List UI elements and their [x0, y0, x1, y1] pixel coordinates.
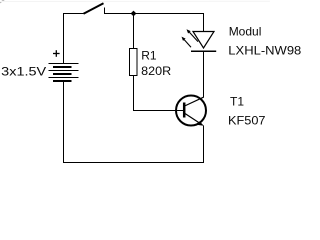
- transistor T1 base bar: [183, 103, 186, 118]
- svg-text:Modul: Modul: [229, 25, 262, 39]
- resistor R1 body: [130, 49, 138, 76]
- junction node (diamond) at resistor tap: [131, 11, 137, 17]
- wire top horizontal (switch to LED corner): [105, 13, 205, 15]
- transistor T1 emitter lead: [185, 114, 201, 125]
- battery cell plate short thick 3: [53, 80, 72, 82]
- battery cell plate long 3: [49, 77, 79, 79]
- transistor T1 circle: [176, 96, 206, 126]
- wire bottom horizontal: [63, 162, 204, 164]
- battery cell plate short thick 2: [53, 73, 72, 75]
- LED D1 triangle (anode): [193, 32, 214, 49]
- wire resistor bottom down to base corner: [133, 76, 135, 112]
- wire LED cathode down to transistor collector: [203, 52, 205, 98]
- battery polarity + label: [53, 50, 60, 57]
- battery cell plate short thick 1: [53, 66, 72, 68]
- transistor T1 collector lead: [185, 97, 204, 106]
- LED D1 cathode bar: [191, 50, 216, 52]
- wire base horizontal (corner to transistor base): [133, 110, 184, 112]
- svg-text:3x1.5V: 3x1.5V: [1, 65, 46, 79]
- wire left vertical (battery - down to bottom corner): [63, 82, 65, 163]
- switch right contact: [104, 8, 106, 15]
- svg-text:820R: 820R: [141, 64, 171, 78]
- svg-text:R1: R1: [141, 49, 157, 63]
- switch S (lever): [84, 3, 104, 14]
- wire right vertical (top corner down to LED anode): [203, 13, 205, 32]
- transistor T1 emitter arrowhead: [197, 121, 204, 126]
- wire top-left horizontal (battery to switch): [63, 13, 84, 15]
- LED emission arrow 2: [182, 37, 192, 48]
- wire emitter down to bottom corner: [203, 126, 205, 164]
- scan artifact mark top-left corner: [0, 0, 5, 3]
- wire left vertical (top corner down to battery +): [63, 13, 65, 64]
- LED emission arrow 1: [187, 29, 199, 41]
- svg-text:T1: T1: [230, 95, 244, 109]
- battery cell plate long 2: [49, 70, 79, 72]
- svg-text:LXHL-NW98: LXHL-NW98: [228, 44, 301, 58]
- battery 3x1.5V cell plate long 1: [49, 63, 79, 65]
- svg-text:KF507: KF507: [228, 114, 266, 128]
- wire from junction down to resistor: [133, 14, 135, 49]
